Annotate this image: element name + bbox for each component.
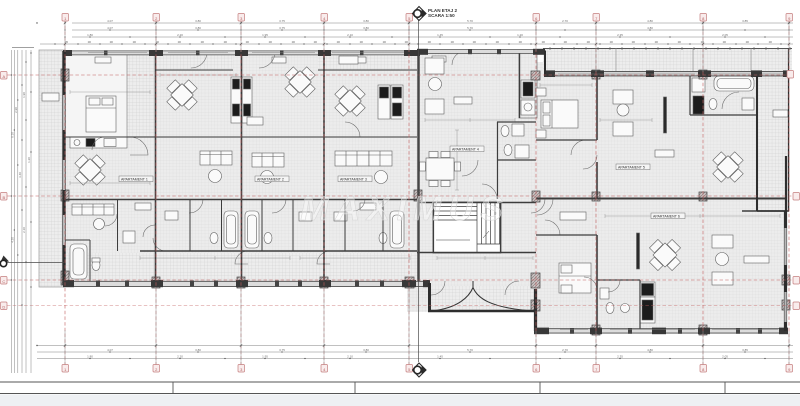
svg-text:3.80: 3.80 xyxy=(363,348,369,352)
left exterior wall xyxy=(62,51,65,285)
svg-text:2.70: 2.70 xyxy=(562,19,568,23)
section symbol bottom xyxy=(413,363,427,377)
svg-text:.90: .90 xyxy=(313,40,318,44)
section line vertical xyxy=(418,20,420,362)
lower-right kitchen xyxy=(640,282,655,323)
svg-text:.90: .90 xyxy=(541,40,546,44)
grid axis 8 xyxy=(702,20,704,365)
lower-right sitting xyxy=(712,235,769,285)
top wall of left block: window band xyxy=(63,50,420,56)
right block internals xyxy=(596,75,598,199)
svg-text:.90: .90 xyxy=(404,40,409,44)
svg-text:1.20: 1.20 xyxy=(27,157,31,163)
FURNITURE xyxy=(42,52,788,323)
bottom wall of left block: window band xyxy=(63,280,430,287)
right apt dining diamond xyxy=(713,152,743,182)
middle block interior xyxy=(407,50,537,312)
balcony parapet wall left xyxy=(155,69,233,71)
party wall apt3/apt4 xyxy=(323,52,325,281)
apt1 small room shelf xyxy=(135,203,151,210)
balcony shelf mid xyxy=(339,56,358,64)
svg-text:4.80: 4.80 xyxy=(647,348,653,352)
PILASTER BLOCKS at grid/wall intersections xyxy=(61,69,790,335)
svg-text:3.80: 3.80 xyxy=(195,26,201,30)
balcony shelf left xyxy=(42,93,59,101)
svg-text:1.80: 1.80 xyxy=(87,33,93,37)
svg-text:2.70: 2.70 xyxy=(562,348,568,352)
svg-text:3.80: 3.80 xyxy=(195,348,201,352)
svg-text:3.85: 3.85 xyxy=(742,19,748,23)
svg-text:SCARA 1:50: SCARA 1:50 xyxy=(428,13,455,18)
grid axis A xyxy=(7,74,793,76)
svg-text:.90: .90 xyxy=(177,40,182,44)
middle apt furniture xyxy=(420,52,538,187)
svg-text:MAXIMUS: MAXIMUS xyxy=(300,190,510,228)
apt1 side terrace strip xyxy=(127,54,156,137)
double wall left block / middle block xyxy=(417,52,419,281)
grid axis 1 xyxy=(64,20,66,365)
svg-text:.90: .90 xyxy=(450,40,455,44)
svg-text:.90: .90 xyxy=(359,40,364,44)
apt3 dining diamond xyxy=(285,67,315,97)
BOTTOM FRAME xyxy=(0,382,800,406)
svg-text:2.35: 2.35 xyxy=(617,355,623,359)
apt1 wc xyxy=(92,260,100,271)
svg-text:.90: .90 xyxy=(609,40,614,44)
left balcony strip xyxy=(39,50,64,287)
section line left xyxy=(7,262,64,264)
apt1 kitchen counter xyxy=(70,137,127,148)
bath fixtures xyxy=(501,126,509,137)
grid axis 5 xyxy=(408,20,410,365)
svg-text:APARTAMENT 2: APARTAMENT 2 xyxy=(257,178,284,182)
svg-text:1.20: 1.20 xyxy=(517,33,523,37)
svg-text:2.35: 2.35 xyxy=(617,33,623,37)
grid axis 6 xyxy=(535,20,537,365)
svg-text:4.80: 4.80 xyxy=(647,19,653,23)
party wall apt2/apt3 xyxy=(241,52,243,281)
svg-text:2.10: 2.10 xyxy=(347,355,353,359)
svg-text:.90: .90 xyxy=(563,40,568,44)
svg-text:.90: .90 xyxy=(87,40,92,44)
svg-text:.90: .90 xyxy=(268,40,273,44)
apt4 baths xyxy=(334,203,404,248)
balcony parapet wall right xyxy=(318,69,417,71)
svg-text:2.05: 2.05 xyxy=(722,355,728,359)
svg-text:5.70: 5.70 xyxy=(467,26,473,30)
svg-text:.90: .90 xyxy=(200,40,205,44)
terrace shelf xyxy=(773,110,788,117)
svg-text:.95: .95 xyxy=(64,40,69,44)
svg-text:.90: .90 xyxy=(768,40,773,44)
svg-text:4.07: 4.07 xyxy=(107,26,113,30)
right terrace xyxy=(757,71,789,211)
left block interior xyxy=(64,52,420,283)
lower-right dining diamond xyxy=(649,239,680,270)
svg-text:D: D xyxy=(2,305,5,310)
section symbol left xyxy=(0,256,9,267)
svg-text:.90: .90 xyxy=(245,40,250,44)
svg-text:.90: .90 xyxy=(631,40,636,44)
svg-text:.90: .90 xyxy=(677,40,682,44)
svg-text:2.20: 2.20 xyxy=(177,355,183,359)
svg-text:.90: .90 xyxy=(518,40,523,44)
WINDOW BANDS (light gaps in dark walls) xyxy=(64,95,786,322)
right block interior xyxy=(536,62,757,331)
apt3 sofa + table xyxy=(252,153,284,184)
north/section symbol top xyxy=(413,7,427,21)
upper ledge above right block xyxy=(543,48,792,71)
party wall apt1/apt2 xyxy=(155,52,157,281)
svg-text:4.07: 4.07 xyxy=(107,19,113,23)
svg-text:3.75: 3.75 xyxy=(279,19,285,23)
wall below bathroom band xyxy=(140,250,417,252)
apt2 bath xyxy=(165,211,238,248)
middle block internals xyxy=(519,51,521,118)
svg-text:.90: .90 xyxy=(427,40,432,44)
apt2 dining diamond xyxy=(167,80,197,110)
dining table 6 chairs xyxy=(426,158,454,180)
top band of right block: window band xyxy=(544,70,790,77)
svg-text:.90: .90 xyxy=(132,40,137,44)
radiators under top windows xyxy=(95,57,111,63)
svg-text:4.20: 4.20 xyxy=(11,237,15,243)
stair hall white xyxy=(433,202,501,253)
svg-text:2.10: 2.10 xyxy=(22,227,26,233)
svg-text:APARTAMENT 1: APARTAMENT 1 xyxy=(121,178,148,182)
stairs xyxy=(433,202,501,253)
svg-text:3.75: 3.75 xyxy=(279,348,285,352)
svg-text:3.80: 3.80 xyxy=(363,19,369,23)
right exterior wall xyxy=(784,211,787,331)
dimension number smudges xyxy=(11,19,773,359)
interior mini dimension chains xyxy=(70,54,780,260)
svg-text:1.45: 1.45 xyxy=(437,355,443,359)
apt1 light room xyxy=(65,54,127,137)
apt4 sofa + table xyxy=(335,151,392,184)
svg-text:.90: .90 xyxy=(155,40,160,44)
ROOM LABELS xyxy=(119,146,685,219)
grid axis 7 xyxy=(595,20,597,365)
lower-right bath xyxy=(600,288,630,314)
svg-text:.90: .90 xyxy=(700,40,705,44)
apt2/3 kitchen columns on party wall xyxy=(231,77,252,123)
svg-text:3.80: 3.80 xyxy=(195,19,201,23)
right apt kitchen + bath xyxy=(692,76,754,114)
grid axis 3 xyxy=(240,20,242,365)
ROOM FILLS xyxy=(39,47,792,331)
svg-text:.90: .90 xyxy=(495,40,500,44)
TITLE xyxy=(428,8,457,18)
bottom wall of right block: window band xyxy=(534,328,788,335)
right apt bed xyxy=(536,88,578,138)
apt1 bed xyxy=(86,96,116,132)
svg-text:1.90: 1.90 xyxy=(22,92,26,98)
apt4 dining diamond xyxy=(335,86,365,116)
svg-text:1.95: 1.95 xyxy=(262,33,268,37)
porch recess white xyxy=(430,286,536,312)
apt2 sofa + table xyxy=(200,117,263,183)
INTERNAL WALLS xyxy=(64,51,786,330)
svg-text:6.10: 6.10 xyxy=(11,132,15,138)
wall between top rooms and living band xyxy=(64,136,417,138)
svg-text:B: B xyxy=(2,195,5,200)
right apt sitting xyxy=(613,90,667,136)
svg-text:.90: .90 xyxy=(382,40,387,44)
gallery corridor bottom of left block xyxy=(64,253,420,281)
apt1 bathtub xyxy=(70,244,87,279)
svg-text:4.80: 4.80 xyxy=(647,26,653,30)
porch walls xyxy=(428,283,431,312)
grid axis B xyxy=(7,195,793,197)
DOOR ARCS xyxy=(92,51,739,295)
grid axis 2 xyxy=(155,20,157,365)
svg-text:3.80: 3.80 xyxy=(363,26,369,30)
left / right bubbles for horizontal axes xyxy=(1,71,800,310)
svg-text:1.95: 1.95 xyxy=(262,355,268,359)
svg-text:.90: .90 xyxy=(654,40,659,44)
top grid bubbles xyxy=(62,14,793,22)
apt4 kitchen xyxy=(378,85,403,119)
bottom grid bubbles xyxy=(62,365,793,373)
svg-text:APARTAMENT 6: APARTAMENT 6 xyxy=(653,215,680,219)
apt1 sofa lower xyxy=(72,204,114,230)
svg-text:.90: .90 xyxy=(472,40,477,44)
svg-text:2.10: 2.10 xyxy=(347,33,353,37)
lower-right: wardrobe + bed xyxy=(559,212,640,293)
svg-text:3.85: 3.85 xyxy=(742,348,748,352)
svg-text:APARTAMENT 3: APARTAMENT 3 xyxy=(340,178,367,182)
svg-text:3.40: 3.40 xyxy=(18,172,22,178)
svg-text:.90: .90 xyxy=(745,40,750,44)
OUTER WALLS xyxy=(63,48,790,334)
svg-text:1.80: 1.80 xyxy=(87,355,93,359)
grid axis 4 xyxy=(323,20,325,365)
svg-text:2.20: 2.20 xyxy=(177,33,183,37)
top balcony strips xyxy=(156,53,233,70)
svg-text:C: C xyxy=(2,279,5,284)
svg-text:.90: .90 xyxy=(291,40,296,44)
grid axis D xyxy=(7,305,793,307)
svg-text:.90: .90 xyxy=(336,40,341,44)
svg-text:5.70: 5.70 xyxy=(467,19,473,23)
grid axis C xyxy=(7,279,793,281)
svg-text:.90: .90 xyxy=(586,40,591,44)
wall above bathroom band xyxy=(64,199,417,201)
apt3 bath xyxy=(245,211,312,248)
lower right room xyxy=(597,199,787,331)
svg-text:APARTAMENT 5: APARTAMENT 5 xyxy=(618,166,645,170)
svg-text:A: A xyxy=(2,74,5,79)
svg-text:5.70: 5.70 xyxy=(467,348,473,352)
svg-text:2.90: 2.90 xyxy=(14,107,18,113)
svg-text:2.05: 2.05 xyxy=(722,33,728,37)
bath partitions in lower band xyxy=(190,199,383,251)
grid axis 9 xyxy=(788,20,790,365)
extension lines from top markers down to building xyxy=(65,20,789,365)
svg-text:APARTAMENT 4: APARTAMENT 4 xyxy=(452,148,479,152)
svg-text:3.75: 3.75 xyxy=(279,26,285,30)
porch canopy arc xyxy=(432,288,534,312)
svg-text:.90: .90 xyxy=(722,40,727,44)
svg-text:4.07: 4.07 xyxy=(107,348,113,352)
dimension tick dots xyxy=(64,22,790,347)
apt1 dining diamond xyxy=(75,155,105,185)
svg-text:.90: .90 xyxy=(109,40,114,44)
top wall of middle block xyxy=(417,49,545,55)
svg-text:.90: .90 xyxy=(223,40,228,44)
svg-text:1.45: 1.45 xyxy=(437,33,443,37)
